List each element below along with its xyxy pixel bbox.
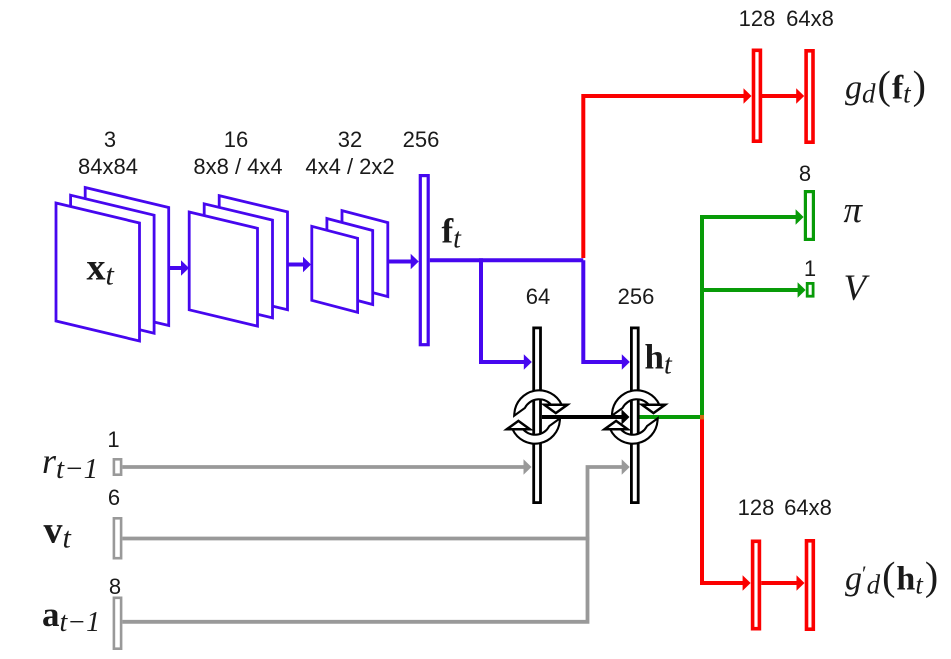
arrowhead purple into conv3 xyxy=(303,257,311,272)
wire: black LSTM1 to LSTM2 xyxy=(542,415,622,419)
LSTM1 bar (64) xyxy=(534,328,541,503)
arrowhead red into bottom 128 bar xyxy=(743,575,751,590)
conv stack conv3 sheet 2 (back to front) xyxy=(327,219,373,305)
svg-text:6: 6 xyxy=(108,485,120,510)
f_t 256 feature bar xyxy=(420,176,428,345)
svg-text:128: 128 xyxy=(739,6,776,31)
svg-text:8: 8 xyxy=(109,574,121,599)
arrowhead purple into LSTM1 xyxy=(524,354,532,369)
svg-text:g′d(ht): g′d(ht) xyxy=(845,554,938,600)
arrowhead black into LSTM2 xyxy=(622,409,630,424)
conv stack conv3 sheet 1 (back to front) xyxy=(342,211,388,297)
conv stack conv2 sheet 3 (back to front) xyxy=(189,212,257,326)
arrowhead purple into conv2 xyxy=(181,260,189,275)
arrowhead gray into LSTM1 xyxy=(524,459,532,474)
conv stack x_t sheet 1 (back to front) xyxy=(85,188,169,326)
wire: red from h_t junction down and right to deconv g'_d xyxy=(702,417,743,583)
arrowhead green into pi bar xyxy=(796,209,804,224)
svg-text:3: 3 xyxy=(104,127,116,152)
wire: branch down into LSTM2 xyxy=(583,260,622,362)
svg-text:rt−1: rt−1 xyxy=(42,441,98,485)
wire: x_t stack to conv2 xyxy=(169,266,182,270)
deconv 128 bar top xyxy=(754,50,761,141)
svg-text:64: 64 xyxy=(526,284,550,309)
action input bar (8) xyxy=(114,598,121,649)
conv stack x_t sheet 2 (back to front) xyxy=(71,195,155,333)
wire: conv2 to conv3 xyxy=(287,263,303,267)
svg-text:256: 256 xyxy=(618,284,655,309)
svg-text:vt: vt xyxy=(44,510,72,555)
conv stack conv3 sheet 3 (back to front) xyxy=(312,226,358,312)
recurrence arrows on LSTM1 xyxy=(507,391,567,442)
arrowhead red into 64x8 bar xyxy=(796,88,804,103)
wire: main f_t feature line xyxy=(430,258,584,262)
conv stack conv2 sheet 2 (back to front) xyxy=(204,204,272,318)
svg-text:V: V xyxy=(844,268,871,309)
deconv 128 bar bottom xyxy=(753,541,760,628)
deconv 64x8 bar top xyxy=(806,51,813,142)
wire: action a_{t-1} right, up the bus, into LSTM2 xyxy=(122,467,622,622)
wire: red from f_t junction up and right to deconv g_d xyxy=(583,96,744,258)
arrowhead gray into LSTM2 xyxy=(622,459,630,474)
svg-text:8: 8 xyxy=(799,161,811,186)
junction blend mark at green/red tee xyxy=(700,415,704,419)
svg-text:84x84: 84x84 xyxy=(78,154,138,179)
LSTM2 bar (256) h_t xyxy=(631,328,638,503)
arrowhead green into V bar xyxy=(798,282,806,297)
recurrence arrows on LSTM2 xyxy=(605,391,665,442)
wire: green from LSTM2 output up to policy pi xyxy=(640,217,797,417)
wire: green branch to value V xyxy=(702,288,798,292)
reward input bar (1) xyxy=(114,459,121,474)
svg-text:π: π xyxy=(844,190,864,231)
svg-text:1: 1 xyxy=(107,427,119,452)
svg-text:gd(ft): gd(ft) xyxy=(845,63,926,109)
policy pi bar (8) xyxy=(805,192,813,240)
value V bar (1) xyxy=(807,283,813,296)
wire: velocity v_t joining vertical bus xyxy=(122,537,589,541)
svg-text:256: 256 xyxy=(403,127,440,152)
conv stack conv2 sheet 1 (back to front) xyxy=(219,196,287,310)
arrowhead purple into LSTM2 xyxy=(622,354,630,369)
deconv 64x8 bar bottom xyxy=(807,541,814,629)
svg-text:16: 16 xyxy=(224,127,248,152)
svg-text:4x4 / 2x2: 4x4 / 2x2 xyxy=(305,154,394,179)
wire: reward r_{t-1} to LSTM1 xyxy=(122,465,524,469)
wire: red between top deconv bars xyxy=(762,94,797,98)
svg-text:1: 1 xyxy=(804,256,816,281)
svg-text:at−1: at−1 xyxy=(42,595,100,638)
arrowhead purple into f_t bar xyxy=(411,254,419,269)
svg-text:ht: ht xyxy=(645,338,673,381)
svg-text:32: 32 xyxy=(338,127,362,152)
arrowhead red into bottom 64x8 bar xyxy=(797,575,805,590)
wire: conv3 to f_t bar xyxy=(389,260,411,264)
wire: branch down into LSTM1 xyxy=(481,258,524,362)
svg-text:64x8: 64x8 xyxy=(784,495,832,520)
conv stack x_t sheet 3 (back to front) xyxy=(56,203,140,341)
svg-text:8x8 / 4x4: 8x8 / 4x4 xyxy=(193,154,282,179)
wire: red between bottom deconv bars xyxy=(761,581,797,585)
arrowhead red into 128 bar xyxy=(744,88,752,103)
svg-text:128: 128 xyxy=(738,495,775,520)
svg-text:64x8: 64x8 xyxy=(786,6,834,31)
velocity input bar (6) xyxy=(114,518,121,558)
svg-text:ft: ft xyxy=(442,212,463,255)
